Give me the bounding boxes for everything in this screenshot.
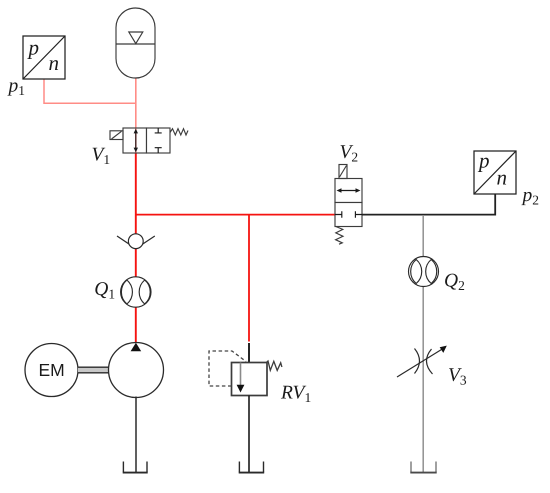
tank 1	[123, 462, 147, 473]
relief valve RV1 inlet (black)	[248, 343, 250, 363]
wire RV1 to tank 2	[248, 396, 250, 473]
V2 top square double arrow	[339, 190, 358, 192]
svg-text:EM: EM	[39, 360, 65, 380]
wire manifold horizontal (red)	[136, 214, 335, 216]
wire pump to tank 1	[135, 397, 137, 473]
svg-text:n: n	[497, 166, 508, 190]
wire main vertical through check valve and Q1 to pump (red)	[135, 215, 137, 343]
RV1 pilot dashed line	[209, 351, 246, 386]
motor EM	[25, 344, 78, 397]
pressure sensor P1 box	[23, 36, 65, 79]
tank 2	[239, 462, 263, 473]
pump	[109, 343, 164, 398]
V2 solenoid	[339, 165, 347, 179]
V1 spring	[170, 129, 188, 135]
relief valve RV1	[209, 351, 282, 396]
check valve	[117, 234, 155, 249]
pressure sensor P2 box	[474, 151, 516, 194]
wire gray branch to tank 3	[422, 215, 424, 472]
flow meter Q2	[409, 257, 439, 287]
V1 right square blocked ports	[155, 128, 162, 133]
RV1 spring	[266, 361, 282, 370]
shaft	[78, 367, 109, 373]
V2 bottom square blocked ports	[335, 211, 342, 218]
tank 3	[411, 462, 436, 473]
throttle valve V3	[397, 346, 447, 377]
V2 spring	[336, 227, 343, 245]
svg-text:p: p	[477, 149, 490, 173]
valve V2	[335, 165, 362, 245]
flow meter Q1	[121, 277, 151, 307]
V1 left square flow arrow	[135, 132, 137, 150]
V1 solenoid	[110, 131, 123, 140]
wire accumulator to main junction (red vertical)	[135, 78, 137, 128]
svg-text:p: p	[27, 36, 40, 60]
valve V1	[110, 128, 188, 153]
svg-text:n: n	[49, 51, 60, 75]
wire p1 sensor drop (red)	[44, 79, 136, 103]
wire RV1 branch (red)	[248, 215, 250, 342]
accumulator	[116, 8, 155, 78]
wire V2 to p2 (black)	[362, 194, 495, 215]
